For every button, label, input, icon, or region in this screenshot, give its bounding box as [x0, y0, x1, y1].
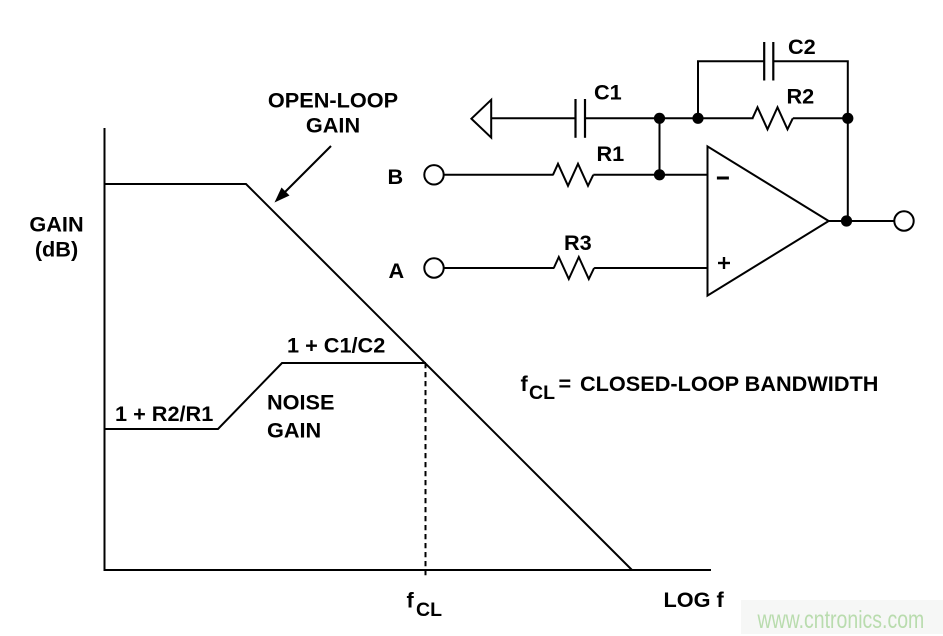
watermark background [741, 600, 943, 634]
svg-text:1 + C1/C2: 1 + C1/C2 [287, 333, 385, 358]
svg-text:CL: CL [416, 599, 442, 621]
svg-text:A: A [389, 258, 405, 283]
wire output vertical [847, 118, 849, 221]
wire triangle to C1 [491, 117, 575, 119]
svg-text:CL: CL [529, 382, 555, 404]
svg-text:GAIN: GAIN [267, 418, 321, 443]
wire C1 to R2 [585, 117, 754, 119]
svg-text:(dB): (dB) [35, 237, 78, 262]
svg-text:GAIN: GAIN [306, 113, 360, 138]
watermark www.cntronics.com [757, 606, 925, 634]
wire B to R1 [444, 174, 554, 176]
wire R2 to output node [793, 117, 848, 119]
terminal B [424, 165, 443, 184]
label fCL under axis [407, 588, 443, 622]
node feedback branch [692, 113, 703, 124]
wire R1 to op-amp [593, 174, 707, 176]
wire junction vertical [659, 118, 661, 175]
output terminal [894, 211, 913, 230]
input connector triangle [471, 100, 491, 138]
capacitor C1 [576, 80, 622, 138]
svg-text:R1: R1 [597, 141, 625, 166]
svg-text:f: f [407, 588, 415, 613]
y-axis [104, 128, 106, 571]
wire op-amp output [829, 220, 895, 222]
open-loop gain curve [105, 184, 633, 570]
svg-text:=: = [559, 371, 572, 396]
wire A to R3 [444, 267, 555, 269]
terminal A [424, 258, 443, 277]
svg-text:GAIN: GAIN [29, 212, 83, 237]
noise gain curve [105, 363, 427, 429]
svg-text:R3: R3 [564, 230, 592, 255]
node inverting input [654, 169, 665, 180]
svg-text:C2: C2 [788, 34, 816, 59]
label GAIN (dB) [29, 212, 83, 262]
node C1/R1 junction [654, 113, 665, 124]
wire C2 feedback loop [698, 61, 848, 118]
svg-text:R2: R2 [787, 84, 815, 109]
node output junction [841, 215, 852, 226]
svg-text:B: B [388, 164, 404, 189]
svg-text:C1: C1 [594, 80, 622, 105]
label fCL = CLOSED-LOOP BANDWIDTH [521, 371, 879, 404]
label NOISE GAIN [267, 390, 335, 443]
resistor R2 [753, 84, 815, 130]
resistor R1 [553, 141, 624, 186]
wire R3 to op-amp [594, 267, 707, 269]
capacitor C2 [764, 34, 816, 81]
svg-text:OPEN-LOOP: OPEN-LOOP [268, 88, 398, 113]
label OPEN-LOOP GAIN [268, 88, 398, 138]
op-amp U1 [708, 146, 829, 295]
svg-text:f: f [521, 371, 529, 396]
dashed line at fCL [425, 363, 427, 578]
node R2 right [842, 113, 853, 124]
arrow to open-loop curve [275, 146, 332, 203]
svg-text:www.cntronics.com: www.cntronics.com [757, 606, 925, 634]
svg-text:NOISE: NOISE [267, 390, 335, 415]
resistor R3 [554, 230, 594, 279]
svg-text:LOG f: LOG f [664, 587, 725, 612]
x-axis [104, 569, 712, 571]
svg-text:1 + R2/R1: 1 + R2/R1 [115, 401, 213, 426]
svg-text:CLOSED-LOOP BANDWIDTH: CLOSED-LOOP BANDWIDTH [580, 371, 878, 396]
